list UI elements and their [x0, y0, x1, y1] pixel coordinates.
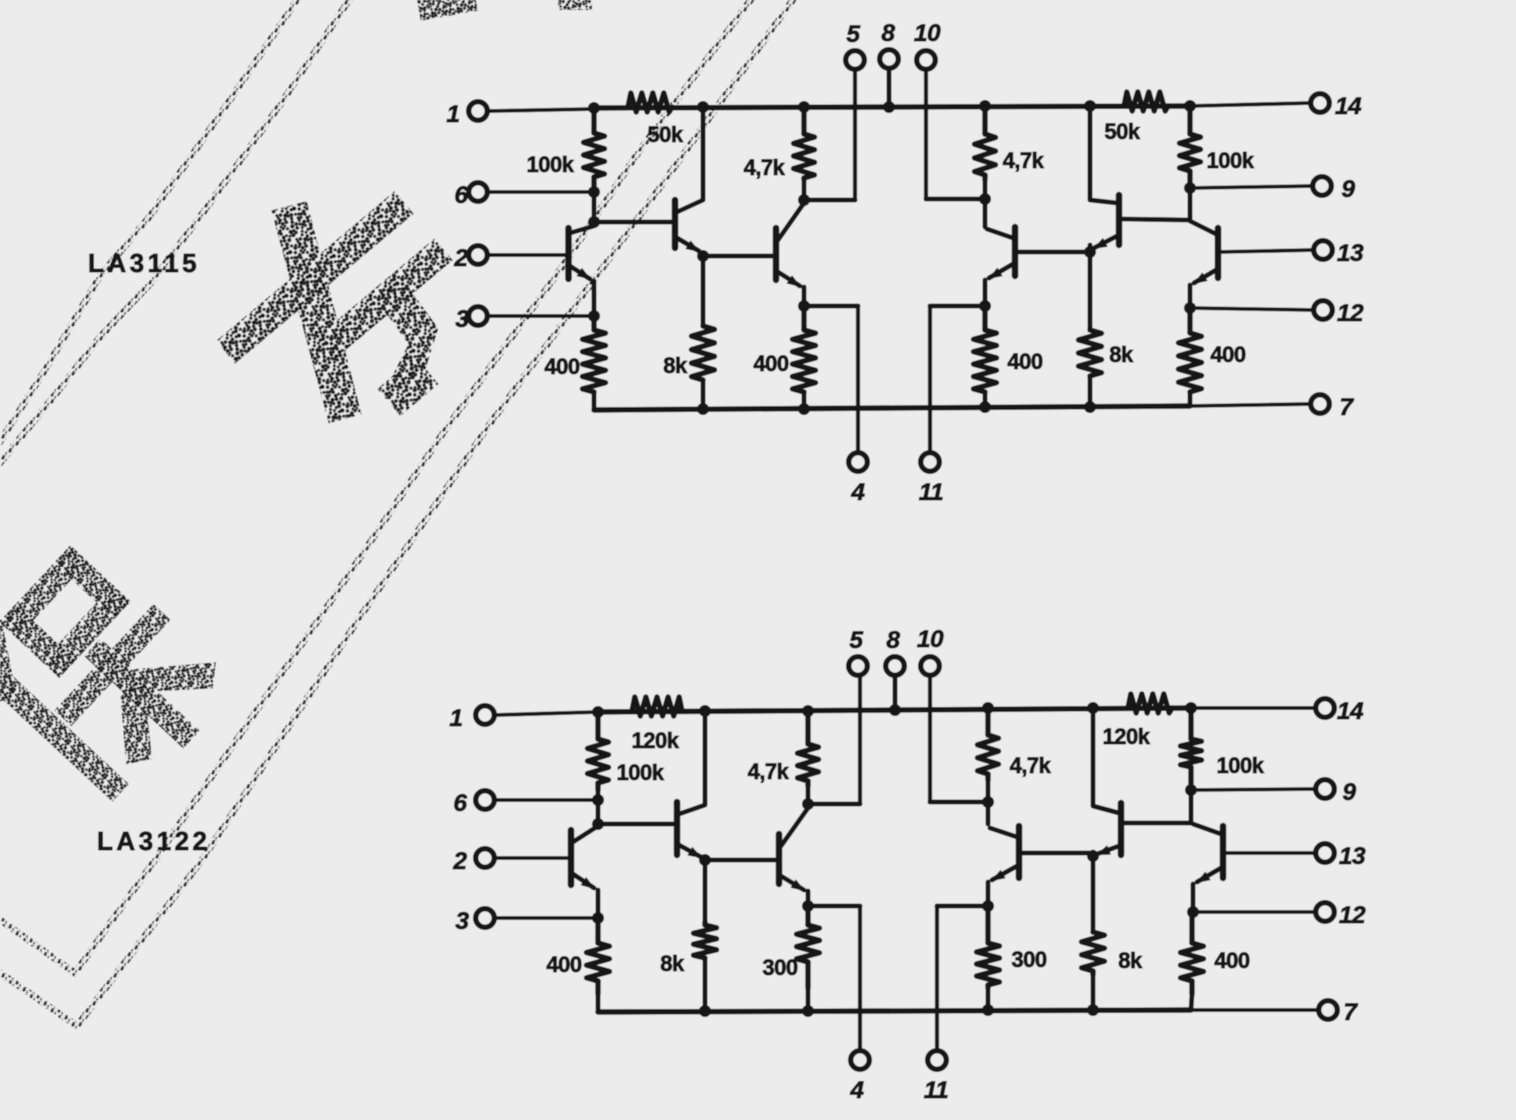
svg-text:4: 4: [849, 1077, 864, 1104]
node D mid junction: [979, 193, 991, 205]
node A2b junction: [592, 818, 604, 830]
resistor 100k (right b): [1181, 712, 1265, 784]
svg-text:120k: 120k: [1103, 724, 1151, 749]
node Bb emitter junction: [699, 854, 711, 866]
wire column B upper: [701, 107, 706, 199]
svg-text:100k: 100k: [1217, 753, 1265, 778]
node A1 junction: [588, 102, 600, 198]
wire 400R to rail: [1188, 392, 1193, 406]
svg-text:8: 8: [886, 627, 900, 654]
pin 13: [1218, 240, 1364, 267]
svg-text:12: 12: [1337, 300, 1364, 327]
pin 6b: [453, 790, 596, 817]
resistor 120k (right): [1103, 694, 1172, 749]
wire 400RC to rail: [979, 392, 991, 413]
svg-text:400: 400: [546, 952, 581, 977]
wire bottom rail b: [598, 1010, 1191, 1012]
wire 4.7kRb to node: [986, 780, 991, 803]
wire column D mid: [983, 199, 988, 227]
transistor Q1: [569, 226, 595, 316]
pin 2b: [452, 848, 569, 875]
transistor Q5b: [1093, 803, 1121, 858]
wire top supply rail b: [598, 708, 1191, 712]
wire column F mid: [1188, 188, 1193, 220]
wire node C to pin5 column: [804, 198, 855, 203]
resistor 300 (right): [977, 906, 1047, 988]
pin 7b: [1319, 999, 1359, 1026]
resistor 400 (left center): [753, 306, 815, 392]
svg-text:400: 400: [1007, 349, 1042, 374]
wire Q4 base to column E: [1015, 250, 1090, 255]
node pin12 junction: [1184, 302, 1196, 314]
node pin3b junction: [592, 912, 604, 924]
svg-text:120k: 120k: [632, 728, 680, 753]
resistor 400 (right outer): [1179, 312, 1246, 392]
svg-text:5: 5: [846, 21, 860, 48]
wire 4.7k to node: [802, 180, 807, 200]
resistor 100k (right): [1180, 112, 1255, 182]
node D top: [979, 100, 991, 112]
node pin12b junction: [1187, 906, 1199, 918]
svg-text:100k: 100k: [617, 760, 665, 785]
resistor 8k (right): [1079, 330, 1134, 376]
resistor 4.7k (right): [975, 112, 1045, 180]
resistor 400 (left outer b): [546, 924, 609, 994]
stamp border: lower-right frame inner line: [0, 0, 755, 973]
node Bb top: [699, 705, 711, 717]
wire pin11b to node Db emitter: [937, 904, 988, 909]
transistor Q3: [776, 203, 804, 306]
node C emitter junction: [798, 300, 810, 312]
wire Q2 emitter to Q3 base: [703, 254, 776, 259]
svg-text:14: 14: [1335, 93, 1362, 120]
pin 8: [880, 20, 899, 113]
node Db top: [982, 702, 994, 714]
resistor 8k (right b): [1082, 932, 1143, 975]
resistor 100k (left): [527, 114, 605, 186]
wire 8kRb to rail: [1087, 975, 1099, 1016]
resistor 8k (left): [663, 326, 714, 380]
pin 14: [1190, 93, 1362, 120]
svg-text:3: 3: [455, 306, 469, 333]
svg-text:LA3122: LA3122: [97, 826, 211, 856]
wire column Db mid: [986, 802, 991, 824]
svg-text:8k: 8k: [1109, 342, 1134, 367]
stamp border: lower-right frame outer line: [0, 0, 797, 1026]
node pin3 junction: [588, 310, 600, 322]
stamp border: upper-left frame inner line: [0, 0, 353, 468]
wire 8k to rail: [697, 380, 709, 415]
node Cb emitter junction: [802, 900, 814, 912]
pin 12b: [1193, 902, 1366, 929]
wire column E lower: [1088, 252, 1093, 330]
svg-text:5: 5: [849, 627, 863, 654]
svg-text:1: 1: [449, 705, 462, 732]
svg-text:4,7k: 4,7k: [748, 759, 790, 784]
stamp kanji bottom: [0, 527, 241, 821]
node Db emitter junction 2: [982, 900, 994, 912]
pin 10b: [917, 626, 944, 802]
wire 8kR to rail: [1084, 376, 1096, 413]
svg-text:8k: 8k: [663, 353, 688, 378]
resistor 4.7k (left b): [748, 714, 819, 786]
wire column A upper: [592, 186, 597, 222]
svg-text:2: 2: [452, 848, 467, 875]
wire pin10b to node Db: [930, 800, 988, 805]
wire rail to pin7 b: [1191, 1008, 1318, 1012]
stamp border: upper-left frame outer line: [0, 0, 301, 448]
pin 7: [1311, 394, 1355, 421]
svg-text:13: 13: [1337, 240, 1364, 267]
pin 3b: [455, 908, 596, 935]
svg-text:50k: 50k: [1104, 119, 1140, 144]
resistor 50k (right): [1104, 92, 1168, 144]
svg-text:400: 400: [1214, 948, 1249, 973]
wire 8kLb to rail: [699, 958, 711, 1017]
wire node Cb to pin5 column: [808, 802, 860, 807]
resistor 120k (left): [632, 697, 682, 753]
transistor Q3b: [779, 808, 808, 906]
wire Q5b base to column Fb: [1123, 821, 1191, 826]
wire column Fb mid: [1189, 790, 1194, 823]
pin 1: [446, 101, 594, 128]
svg-text:11: 11: [924, 1077, 948, 1104]
svg-text:4,7k: 4,7k: [1010, 753, 1052, 778]
wire column B lower: [701, 256, 706, 326]
svg-text:400: 400: [753, 351, 788, 376]
node Fb top: [1185, 702, 1197, 714]
svg-text:4: 4: [850, 479, 865, 506]
wire 300R to rail: [982, 988, 994, 1016]
wire 100kR to node: [1188, 182, 1193, 190]
pin 2: [453, 245, 566, 272]
node Eb top: [1087, 702, 1099, 714]
svg-text:6: 6: [453, 790, 467, 817]
pin 12: [1190, 300, 1364, 327]
svg-text:10: 10: [914, 20, 941, 47]
node F top: [1184, 100, 1196, 112]
wire top supply rail: [594, 106, 1190, 108]
svg-text:100k: 100k: [1207, 148, 1255, 173]
pin 5: [846, 21, 865, 200]
wire pin10 to node D: [926, 197, 985, 202]
resistor 400 (right center): [974, 306, 1043, 392]
resistor 4.7k (left): [744, 112, 815, 180]
svg-text:4,7k: 4,7k: [1003, 148, 1045, 173]
pin 1b: [449, 705, 598, 732]
svg-text:8k: 8k: [1118, 948, 1143, 973]
stamp partial character at top edge: [416, 0, 592, 21]
svg-text:14: 14: [1337, 698, 1364, 725]
node C top: [798, 101, 810, 113]
pin 13b: [1223, 843, 1366, 870]
node E emitter junction: [1084, 246, 1096, 258]
svg-text:13: 13: [1339, 843, 1366, 870]
node Eb emitter junction: [1087, 850, 1099, 862]
wire Q2b emitter to Q3b base: [705, 858, 779, 863]
wire pin11 to node D emitter: [930, 304, 985, 309]
resistor 300 (left): [762, 906, 819, 988]
transistor Q6b: [1193, 824, 1223, 912]
node B top: [697, 101, 709, 113]
node A1b junction: [592, 706, 604, 718]
svg-text:4,7k: 4,7k: [744, 155, 786, 180]
wire rail to pin7: [1190, 404, 1310, 406]
svg-text:100k: 100k: [527, 152, 575, 177]
transistor Q4: [985, 227, 1015, 306]
pin 8b: [886, 627, 905, 716]
svg-text:8k: 8k: [660, 951, 685, 976]
node Cb top: [802, 705, 814, 717]
wire 400Rb to rail: [1191, 994, 1192, 1010]
svg-text:7: 7: [1343, 999, 1358, 1026]
node Cb mid junction: [802, 798, 814, 810]
transistor Q2: [675, 200, 703, 258]
transistor Q6: [1190, 221, 1218, 308]
wire 400L to rail: [592, 392, 597, 410]
pin 5b: [849, 627, 868, 804]
node A2 junction: [588, 216, 600, 228]
node Db mid junction: [982, 796, 994, 808]
wire node to pin4b column: [808, 904, 860, 909]
pin 11b: [924, 906, 948, 1104]
transistor Q4b: [988, 826, 1019, 906]
svg-text:2: 2: [453, 245, 468, 272]
svg-text:6: 6: [454, 182, 468, 209]
node pin9 junction: [1184, 182, 1196, 194]
resistor 50k (left): [628, 93, 684, 147]
svg-text:3: 3: [455, 908, 469, 935]
svg-text:9: 9: [1341, 176, 1355, 203]
resistor 400 (right outer b): [1181, 916, 1250, 994]
device label LA3122: [97, 826, 211, 856]
wire 4.7kLb to node: [806, 786, 811, 804]
node pin6b junction: [592, 794, 604, 806]
svg-text:1: 1: [446, 101, 459, 128]
pin 9b: [1191, 779, 1356, 806]
wire 4.7kR to node: [983, 180, 988, 200]
svg-text:LA3115: LA3115: [88, 248, 200, 278]
wire 400LC to rail: [798, 392, 810, 415]
resistor 4.7k (right b): [978, 712, 1052, 780]
wire column Eb upper: [1091, 708, 1096, 805]
pin 11: [919, 306, 943, 506]
wire column Bb lower: [703, 860, 708, 922]
svg-text:400: 400: [1210, 342, 1245, 367]
svg-text:12: 12: [1339, 902, 1366, 929]
transistor Q5: [1090, 195, 1119, 252]
device label LA3115: [88, 248, 200, 278]
node E top: [1084, 100, 1096, 112]
wire Q1 collector to Q2 base: [594, 220, 675, 225]
svg-text:7: 7: [1339, 394, 1354, 421]
svg-text:8: 8: [881, 20, 895, 47]
wire column Bb upper: [703, 711, 708, 804]
pin 4b: [849, 906, 869, 1104]
wire 300L to rail: [802, 988, 814, 1017]
svg-text:300: 300: [762, 955, 797, 980]
pin 9: [1190, 176, 1355, 203]
pin 3: [455, 306, 592, 333]
wire Q4b base to column Eb: [1019, 851, 1093, 856]
wire bottom rail: [594, 406, 1190, 410]
svg-text:10: 10: [917, 626, 944, 653]
svg-text:50k: 50k: [647, 122, 683, 147]
resistor 8k (left b): [660, 922, 716, 976]
resistor 400 (left outer): [544, 322, 605, 392]
wire Q5 base to column F: [1121, 219, 1190, 220]
wire node to pin4 column: [804, 304, 858, 309]
node pin9b junction: [1185, 784, 1197, 796]
pin 4: [849, 306, 868, 506]
pin 14b: [1191, 698, 1364, 725]
wire Q1b collector to Q2b base: [598, 822, 677, 827]
node D emitter junction: [979, 300, 991, 312]
wire column E upper: [1088, 106, 1093, 199]
node C mid junction: [798, 194, 810, 206]
wire 400Lb to rail: [596, 994, 601, 1012]
pin 10: [914, 20, 941, 199]
pin 6: [454, 182, 592, 209]
wire column Eb lower: [1091, 856, 1096, 932]
node B emitter junction: [697, 250, 709, 262]
resistor 100k (left b): [588, 716, 665, 790]
transistor Q2b: [677, 802, 705, 862]
svg-text:400: 400: [544, 354, 579, 379]
transistor Q1b: [571, 826, 598, 918]
stamp character (middle kanji): [175, 142, 508, 476]
svg-text:9: 9: [1342, 779, 1356, 806]
svg-text:300: 300: [1011, 947, 1046, 972]
wire column Ab upper: [596, 790, 601, 824]
svg-text:11: 11: [919, 479, 943, 506]
